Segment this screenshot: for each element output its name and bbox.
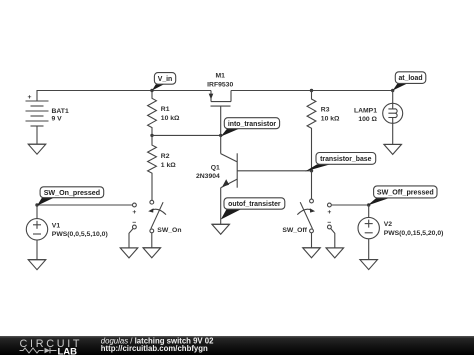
voltage source V2 bbox=[358, 205, 443, 260]
ground (SW_Off) bbox=[303, 248, 321, 258]
svg-text:SW_On: SW_On bbox=[157, 227, 181, 234]
flag outof_transister bbox=[221, 198, 285, 220]
svg-text:R1: R1 bbox=[161, 106, 170, 113]
svg-text:at_load: at_load bbox=[398, 75, 422, 82]
wire Q1 base to transistor_base node bbox=[237, 170, 311, 172]
svg-text:SW_Off: SW_Off bbox=[282, 227, 307, 234]
footer text bbox=[101, 336, 214, 353]
svg-text:transistor_base: transistor_base bbox=[320, 156, 371, 163]
transistor M1 (PMOS IRF9530) bbox=[207, 73, 233, 136]
svg-text:LAMP1: LAMP1 bbox=[354, 107, 377, 114]
node R3 top junction dot bbox=[310, 89, 313, 92]
voltage source V1 bbox=[26, 205, 107, 260]
svg-text:R3: R3 bbox=[321, 107, 330, 114]
wire top rail left (battery to M1 source) bbox=[37, 91, 211, 102]
SW_Off control + terminal bbox=[327, 203, 368, 248]
flag into_transistor bbox=[221, 118, 280, 137]
flag SW_Off_pressed bbox=[368, 186, 438, 206]
ground (V2) bbox=[360, 260, 378, 270]
ground (SW_On control -) bbox=[120, 248, 138, 258]
svg-text:2N3904: 2N3904 bbox=[196, 173, 220, 180]
svg-text:into_transistor: into_transistor bbox=[228, 121, 277, 128]
node into_transistor junction dot bbox=[219, 134, 222, 137]
switch SW_On (voltage controlled) bbox=[148, 200, 181, 248]
svg-text:9 V: 9 V bbox=[52, 115, 63, 122]
logo CIRCUITLAB bbox=[20, 338, 83, 355]
node at_load junction dot bbox=[391, 89, 394, 92]
resistor R1 bbox=[148, 91, 180, 136]
flag SW_On_pressed bbox=[37, 187, 104, 206]
resistor R3 bbox=[307, 91, 340, 171]
flag V_in bbox=[152, 73, 176, 91]
switch SW_Off (voltage controlled) bbox=[282, 171, 315, 248]
SW_On control + terminal bbox=[37, 203, 136, 248]
wire top rail right (M1 drain to lamp) bbox=[231, 90, 393, 92]
svg-text:Q1: Q1 bbox=[211, 164, 220, 171]
svg-text:100 Ω: 100 Ω bbox=[358, 116, 377, 123]
svg-text:SW_On_pressed: SW_On_pressed bbox=[44, 189, 100, 197]
svg-text:V1: V1 bbox=[52, 222, 61, 229]
lamp LAMP1 bbox=[354, 91, 403, 145]
svg-text:BAT1: BAT1 bbox=[52, 108, 69, 115]
battery BAT1 bbox=[26, 94, 69, 144]
svg-text:PWS(0,0,15,5,20,0): PWS(0,0,15,5,20,0) bbox=[384, 230, 444, 237]
svg-text:V2: V2 bbox=[384, 221, 393, 228]
svg-text:10 kΩ: 10 kΩ bbox=[321, 115, 340, 122]
svg-text:PWS(0,0,5,5,10,0): PWS(0,0,5,5,10,0) bbox=[52, 231, 108, 238]
svg-text:10 kΩ: 10 kΩ bbox=[161, 115, 180, 122]
svg-text:http://circuitlab.com/chbfygn: http://circuitlab.com/chbfygn bbox=[101, 344, 208, 353]
svg-text:+: + bbox=[132, 209, 136, 216]
svg-text:outof_transister: outof_transister bbox=[228, 201, 281, 208]
wire mid (R1/R2 node to gate/collector node) bbox=[152, 134, 221, 136]
ground (V1) bbox=[28, 260, 46, 270]
transistor Q1 (NPN 2N3904, mirrored) bbox=[196, 135, 237, 224]
svg-text:SW_Off_pressed: SW_Off_pressed bbox=[377, 189, 434, 197]
ground (battery) bbox=[28, 144, 46, 154]
svg-text:LAB: LAB bbox=[58, 347, 78, 355]
node V1 junction dot bbox=[35, 203, 38, 206]
svg-text:1 kΩ: 1 kΩ bbox=[161, 162, 176, 169]
flag at_load bbox=[393, 72, 426, 91]
svg-text:+: + bbox=[28, 94, 32, 101]
node V2 junction dot bbox=[367, 203, 370, 206]
resistor R2 bbox=[148, 135, 177, 200]
flag transistor_base bbox=[305, 153, 376, 172]
svg-text:+: + bbox=[327, 209, 331, 216]
ground (SW_Off control -) bbox=[326, 248, 344, 258]
node V_in junction dot bbox=[150, 89, 153, 92]
ground (lamp) bbox=[384, 144, 402, 154]
ground (Q1 emitter) bbox=[212, 224, 230, 234]
svg-text:M1: M1 bbox=[215, 73, 225, 80]
node transistor_base junction dot bbox=[310, 169, 313, 172]
ground (SW_On) bbox=[143, 248, 161, 258]
node R1/R2 junction dot bbox=[150, 134, 153, 137]
svg-text:IRF9530: IRF9530 bbox=[207, 81, 233, 88]
svg-text:V_in: V_in bbox=[158, 76, 173, 83]
svg-text:R2: R2 bbox=[161, 153, 170, 160]
